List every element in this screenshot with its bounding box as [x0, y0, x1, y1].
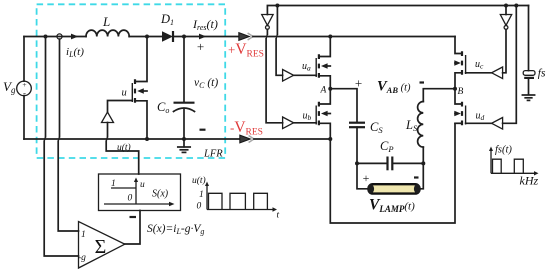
wire inverter right to uc driver — [503, 29, 506, 73]
wire ub gate — [294, 122, 317, 124]
svg-text:B: B — [458, 87, 464, 97]
svg-text:0: 0 — [128, 194, 133, 204]
comparator level line — [111, 187, 136, 189]
capacitor Co plates — [174, 102, 195, 104]
svg-text:S(x)=iL-g·Vg: S(x)=iL-g·Vg — [147, 223, 204, 236]
wire ud gate — [466, 122, 492, 124]
comparator axis S(x) — [104, 203, 170, 205]
fs(t) waveform plot — [489, 145, 539, 188]
wire -VRES rail — [254, 138, 330, 140]
svg-text:ua: ua — [302, 61, 311, 73]
transistor Q u channel — [134, 79, 136, 102]
wire coil to diode — [129, 36, 162, 38]
ground crystal — [522, 95, 534, 100]
wire bus to ud driver — [503, 6, 517, 124]
transistor Q u source wire — [135, 101, 147, 139]
svg-text:-VRES: -VRES — [230, 119, 263, 138]
node Vg sense junction — [44, 35, 48, 39]
svg-text:VLAMP(t): VLAMP(t) — [369, 197, 415, 215]
svg-text:L: L — [102, 14, 110, 29]
lamp — [369, 184, 420, 193]
svg-text:u(t): u(t) — [192, 175, 206, 186]
wire bus to ua driver (hops rail) — [276, 6, 283, 76]
svg-text:uc: uc — [475, 59, 484, 71]
transistor Q u drain wire — [135, 37, 147, 82]
ground — [178, 139, 190, 152]
svg-text:Co: Co — [157, 100, 169, 115]
svg-text:1: 1 — [81, 230, 86, 240]
svg-text:fs(t): fs(t) — [495, 145, 512, 156]
transistor Q uc — [454, 37, 465, 89]
inductor L — [86, 30, 129, 36]
node source junction — [145, 137, 149, 141]
driver buffer ua — [283, 70, 294, 82]
wire node B to LS — [423, 89, 455, 102]
svg-text:u: u — [140, 180, 145, 190]
u(t) waveform plot — [192, 175, 280, 221]
transistor Q u gate bar — [131, 83, 133, 102]
arrow iL direction — [71, 34, 78, 40]
driver buffer ub — [283, 117, 294, 129]
wire uc gate — [466, 72, 492, 74]
svg-text:t: t — [277, 211, 280, 221]
svg-text:Vg: Vg — [3, 79, 16, 95]
driver buffer u — [102, 112, 114, 123]
svg-text:ud: ud — [476, 111, 485, 123]
svg-text:VAB (t): VAB (t) — [377, 79, 411, 96]
wire +VRES rail — [253, 36, 455, 38]
svg-text:+: + — [363, 171, 370, 185]
wire iL sense drop (hops rail) — [58, 39, 78, 231]
svg-text:ub: ub — [303, 111, 312, 123]
wire fs top bus — [267, 6, 528, 15]
comparator block — [99, 174, 181, 211]
transistor Q ud — [454, 89, 465, 126]
wire sigma output — [125, 211, 141, 245]
wire bridge frame bottom — [330, 124, 455, 223]
node bus tap ud — [514, 4, 518, 8]
summer sigma — [79, 222, 125, 269]
wire Vg top lead — [23, 37, 25, 82]
svg-text:CS: CS — [370, 120, 383, 135]
connector +VRES — [239, 33, 250, 41]
LFR dashed box — [37, 4, 226, 158]
node bus tap ua — [275, 4, 279, 8]
node output — [182, 35, 186, 39]
svg-text:iL(t): iL(t) — [66, 46, 84, 59]
connector -VRES — [240, 135, 251, 143]
wire Vg sense drop (hops rail) — [44, 37, 78, 257]
svg-text:Σ: Σ — [95, 236, 107, 258]
minus vC — [200, 129, 206, 131]
svg-text:vC (t): vC (t) — [194, 77, 218, 90]
diode D1 — [162, 31, 173, 41]
node B — [453, 87, 457, 91]
wire ua gate — [294, 74, 317, 76]
svg-text:1: 1 — [199, 190, 204, 200]
wire Vg bottom lead — [23, 96, 25, 139]
node drain tap — [145, 35, 149, 39]
svg-text:u(t): u(t) — [117, 142, 131, 153]
inverter gate left — [262, 15, 273, 26]
driver buffer ud — [492, 118, 503, 130]
wire LS bottom — [422, 147, 424, 163]
wire diode to output node — [174, 36, 239, 38]
capacitor Cp — [386, 157, 388, 171]
wire top rail left — [24, 36, 86, 38]
capacitor Co bottom lead — [183, 109, 185, 139]
arrow Ires direction — [199, 34, 206, 40]
svg-text:0: 0 — [197, 202, 202, 212]
wire node A to CS — [330, 89, 357, 123]
svg-text:LS: LS — [405, 118, 418, 133]
transistor Q ua — [316, 35, 332, 89]
minus lamp — [414, 176, 419, 178]
node bus tap inverter right — [504, 4, 508, 8]
svg-text:u: u — [122, 88, 127, 99]
comparator axis u — [135, 181, 137, 204]
node ub source — [328, 137, 332, 141]
node A — [328, 87, 332, 91]
transistor Q u body arrow — [142, 90, 148, 92]
svg-text:+: + — [355, 76, 362, 91]
svg-text:+VRES: +VRES — [228, 41, 264, 60]
svg-text:kHz: kHz — [520, 174, 539, 188]
minus VAB — [420, 81, 425, 83]
svg-text:CP: CP — [380, 139, 394, 154]
svg-text:D1: D1 — [160, 12, 174, 27]
capacitor CS — [349, 122, 365, 124]
svg-text:Ires(t): Ires(t) — [192, 17, 218, 32]
capacitor Co top lead — [183, 37, 185, 103]
svg-text:LFR: LFR — [203, 149, 223, 160]
wire inverter left to ub driver (hops rail) — [266, 29, 283, 123]
node CS-lamp junction — [355, 161, 359, 165]
svg-text:+: + — [197, 39, 204, 54]
inverter gate right — [505, 6, 507, 15]
svg-text:A: A — [320, 86, 327, 96]
inductor LS — [418, 102, 424, 148]
transistor Q ub — [316, 89, 330, 139]
wire bottom rail — [24, 138, 239, 140]
gate wire — [108, 101, 133, 113]
crystal fs — [528, 6, 530, 71]
minus comparator — [130, 216, 137, 218]
svg-text:S(x): S(x) — [152, 189, 169, 200]
svg-text:fs: fs — [538, 68, 546, 80]
wire driver input (hops rail) — [106, 123, 139, 175]
lamp leads — [357, 163, 369, 188]
svg-text:-g: -g — [78, 253, 86, 263]
source Vg — [17, 81, 32, 96]
node Cp-LS junction — [421, 161, 425, 165]
driver buffer uc — [492, 67, 503, 79]
wire CS to Cp — [357, 162, 387, 164]
svg-text:1: 1 — [111, 179, 116, 189]
current sensor circle — [57, 34, 62, 39]
node Co ground junction — [182, 137, 186, 141]
